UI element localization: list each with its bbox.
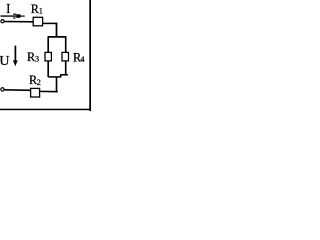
wire bottom left [4, 89, 31, 92]
svg-text:U: U [0, 54, 10, 69]
wire drop 2 [56, 77, 58, 92]
wire joiner lower (from R3) [48, 76, 61, 78]
wire bottom right [40, 90, 58, 92]
terminal top [1, 20, 4, 23]
wire joiner step [60, 75, 62, 77]
svg-text:I: I [6, 1, 11, 16]
svg-text:3: 3 [35, 55, 39, 64]
wire top right [42, 22, 57, 24]
resistor R1 [33, 17, 42, 26]
frame border right [89, 0, 91, 111]
resistor R3 [45, 52, 51, 61]
frame border bottom [0, 109, 91, 111]
resistor R2 [31, 88, 40, 97]
R3 bottom lead [47, 61, 49, 77]
R4 top lead [65, 37, 67, 53]
voltage arrow U [14, 46, 16, 62]
R3 top lead [47, 37, 49, 53]
wire joiner upper (to R4) [60, 74, 68, 76]
resistor R4 [62, 52, 69, 61]
wire splitter [48, 36, 67, 38]
terminal bottom [1, 88, 4, 91]
svg-text:4: 4 [80, 55, 84, 64]
current arrow I [1, 15, 18, 17]
R4 bottom lead [65, 61, 67, 75]
svg-text:1: 1 [39, 7, 43, 16]
wire top left [4, 21, 34, 23]
svg-text:2: 2 [37, 78, 41, 87]
wire drop from top [56, 23, 58, 37]
